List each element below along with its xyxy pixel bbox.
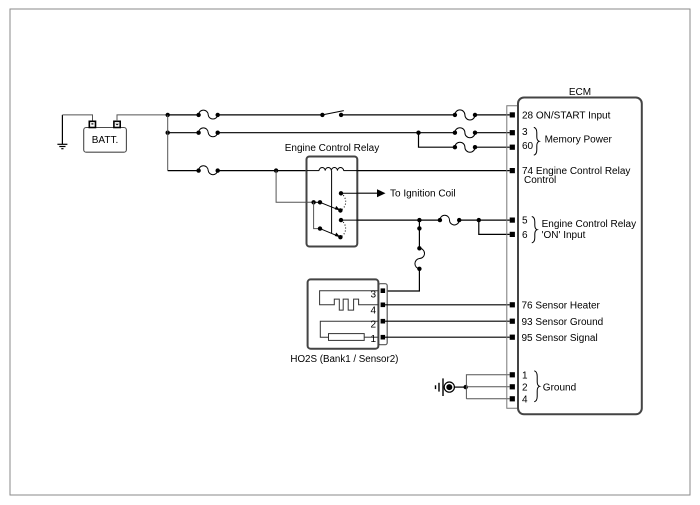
brace 1/2/4: [534, 371, 539, 402]
wire pin1 to ECM 95: [385, 336, 510, 338]
wire branch to relay switch common: [276, 171, 314, 203]
svg-text:6: 6: [522, 230, 528, 241]
node pin5/6 branch: [477, 218, 481, 222]
wire row3 to connector: [168, 170, 199, 172]
wire ground bracket: [466, 375, 509, 399]
wire sensor feed down: [418, 220, 420, 248]
ground (battery negative): [57, 115, 67, 149]
connector row2 ecm side: [453, 128, 478, 138]
connector output row: [438, 215, 462, 225]
relay switch arm 2: [320, 229, 343, 240]
svg-text:Engine Control Relay: Engine Control Relay: [542, 219, 637, 230]
svg-text:2: 2: [522, 382, 528, 393]
svg-text:4: 4: [522, 394, 528, 405]
wire branch to pin 6: [479, 220, 510, 234]
wire branch to row 60: [419, 133, 455, 148]
svg-text:3: 3: [370, 290, 376, 301]
relay NO contact output: [339, 218, 343, 222]
svg-text:5: 5: [522, 215, 528, 226]
wire row1 to switch: [218, 114, 323, 116]
relay box: [307, 157, 358, 247]
svg-text:'ON' Input: 'ON' Input: [542, 230, 586, 241]
wire pin2 to ECM 93: [385, 320, 510, 322]
relay NO contact to ignition coil: [339, 191, 343, 195]
svg-text:2: 2: [370, 319, 376, 330]
wire row2 to pin 3: [475, 132, 510, 134]
relay coil L: [307, 168, 358, 171]
brace 3/60: [534, 127, 539, 155]
node row2: [166, 131, 170, 135]
node connector top: [417, 226, 421, 230]
connector row3: [196, 166, 219, 175]
svg-text:3: 3: [522, 127, 528, 138]
svg-text:Control: Control: [524, 175, 556, 186]
ECM connector bracket: [507, 106, 518, 409]
wire relay output row: [341, 219, 357, 221]
wire row60 to pin 60: [475, 146, 510, 148]
svg-text:95 Sensor Signal: 95 Sensor Signal: [522, 333, 598, 344]
connector row1: [196, 110, 219, 119]
chassis ground symbol: [436, 378, 455, 396]
svg-text:4: 4: [370, 306, 376, 317]
wire relay coil to pin 74: [357, 170, 509, 172]
wire row2 to connector3: [419, 132, 455, 134]
ECM box: [518, 98, 642, 415]
wire row2 to connector: [168, 132, 199, 134]
connector row1 ecm side: [453, 110, 478, 120]
HO2S heater element: [320, 291, 379, 310]
ECM pin squares: [510, 112, 515, 401]
svg-text:To Ignition Coil: To Ignition Coil: [390, 188, 456, 199]
svg-text:60: 60: [522, 141, 534, 152]
wire ground to node: [454, 386, 467, 388]
wire to ignition coil arrow: [341, 188, 456, 199]
wire to pin5: [459, 219, 510, 221]
relay switch arm 1: [320, 202, 343, 212]
relay armature link: [331, 171, 333, 233]
wire battery positive to node B+: [117, 115, 168, 121]
node row2 branch: [416, 131, 420, 135]
relay common contacts: [311, 200, 315, 204]
svg-text:BATT.: BATT.: [92, 135, 118, 146]
svg-text:28 ON/START Input: 28 ON/START Input: [522, 111, 611, 122]
HO2S box: [308, 279, 379, 348]
wire pin4 to ECM 76: [385, 304, 510, 306]
wire relay common jumper: [314, 201, 320, 203]
relay contact travel arc 2: [340, 220, 345, 237]
wire relay common down: [314, 202, 320, 228]
wire row3 to relay: [218, 170, 307, 172]
connector vertical: [415, 246, 425, 271]
HO2S connector bracket: [378, 284, 387, 345]
wire row2 to node: [218, 132, 419, 134]
wire row1 to pin 28: [475, 114, 510, 116]
HO2S pin numbers: [370, 290, 376, 345]
svg-text:Engine Control Relay: Engine Control Relay: [285, 143, 380, 154]
node ground branch: [464, 385, 468, 389]
relay contact travel arc 1: [340, 193, 345, 210]
battery BATT.: [84, 121, 127, 152]
wire row1 to connector2: [341, 114, 455, 116]
svg-text:76 Sensor Heater: 76 Sensor Heater: [522, 300, 601, 311]
node relay output: [417, 218, 421, 222]
brace 5/6: [532, 217, 537, 243]
svg-text:Memory Power: Memory Power: [545, 135, 613, 146]
HO2S sensor cell: [320, 321, 378, 340]
wire down to HO2S pin3: [384, 269, 419, 291]
svg-text:93 Sensor Ground: 93 Sensor Ground: [522, 317, 604, 328]
svg-text:1: 1: [370, 334, 376, 345]
wire bus vertical: [167, 115, 169, 171]
node B+ row1: [166, 113, 170, 117]
ignition switch row1: [320, 111, 344, 118]
wire row1 to connector: [168, 114, 199, 116]
HO2S pin squares: [381, 288, 386, 339]
svg-text:Ground: Ground: [543, 382, 576, 393]
svg-text:1: 1: [522, 370, 528, 381]
svg-text:HO2S (Bank1 / Sensor2): HO2S (Bank1 / Sensor2): [290, 354, 398, 365]
connector row60: [453, 142, 478, 152]
wire battery negative to ground: [62, 115, 92, 121]
node row3 branch: [274, 168, 278, 172]
connector row2: [196, 128, 219, 137]
ECM pin labels: [522, 111, 637, 406]
